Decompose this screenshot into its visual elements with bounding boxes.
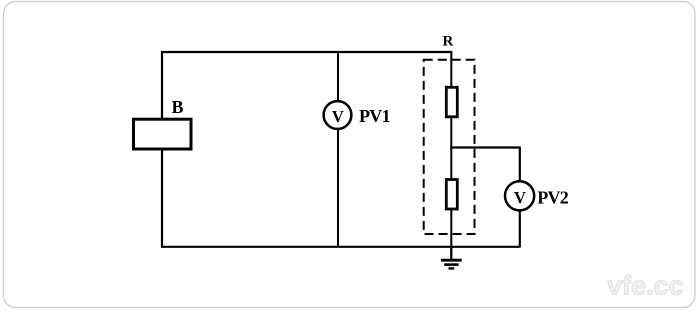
- svg-text:PV1: PV1: [359, 106, 391, 126]
- svg-text:B: B: [172, 97, 184, 117]
- wire: PV1 vertical branch: [337, 51, 339, 248]
- dashed enclosure around divider R: [424, 60, 475, 234]
- wire: top horizontal from node at left branch to R branch: [161, 51, 452, 53]
- wire: bottom horizontal: [161, 246, 520, 248]
- resistor R upper element: [446, 87, 457, 117]
- svg-text:vfe.cc: vfe.cc: [607, 271, 684, 301]
- resistor R lower element: [446, 180, 457, 210]
- voltmeter PV2 circle: [505, 181, 534, 210]
- wire: mid node horizontal to PV2: [450, 146, 520, 148]
- wire: PV2 vertical branch: [519, 147, 521, 248]
- svg-text:R: R: [443, 34, 454, 50]
- svg-text:V: V: [332, 107, 344, 126]
- source block B: [134, 119, 192, 149]
- wire: left vertical through B: [161, 51, 163, 248]
- wire: R divider vertical branch: [450, 51, 452, 259]
- svg-text:V: V: [514, 188, 526, 207]
- ground symbol: [441, 247, 462, 268]
- voltmeter PV1 circle: [324, 101, 352, 129]
- svg-text:PV2: PV2: [537, 188, 569, 208]
